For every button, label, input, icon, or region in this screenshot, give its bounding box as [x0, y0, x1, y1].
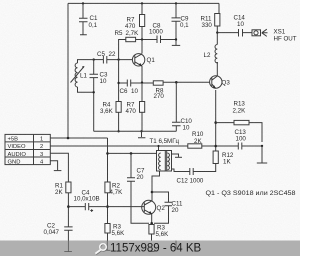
resistor R7b	[126, 102, 145, 116]
wire stubs through bar	[64, 241, 176, 252]
node Q2 collector	[151, 191, 154, 194]
ground bus	[138, 131, 145, 138]
wire C10 bottom	[175, 126, 177, 131]
node C8-C9	[175, 38, 177, 40]
wire tank top to Q1 base	[94, 59, 103, 61]
wire tank bottom drop	[93, 92, 95, 131]
capacitor C10	[172, 118, 192, 132]
wire R7 top lead	[141, 3, 143, 14]
capacitor C1	[79, 3, 98, 34]
wire ground bus	[94, 130, 177, 132]
wire T1 primary bottom to Q2 collector	[152, 171, 160, 201]
capacitor C6	[120, 80, 139, 96]
resistor R1	[55, 182, 71, 196]
wire T1 video stub	[158, 146, 160, 151]
capacitor C8	[149, 23, 163, 44]
resistor R12	[213, 151, 234, 166]
node rail-R7	[141, 2, 143, 4]
wire R12 bottom to C12	[172, 164, 216, 172]
resistor R7	[125, 15, 145, 31]
connector XS1 plug	[252, 29, 297, 43]
inductor L1 tank	[71, 60, 94, 93]
wire Q1 emitter lead	[141, 66, 143, 82]
node base junction	[117, 58, 119, 60]
wire C10 column	[175, 82, 177, 122]
resistor R8	[153, 81, 164, 100]
capacitor C7	[127, 168, 145, 182]
resistor R2	[105, 182, 123, 196]
status bar	[0, 241, 300, 256]
node emitter-R8	[141, 81, 143, 83]
capacitor C13	[235, 129, 247, 150]
resistor R11	[201, 14, 220, 30]
magnifier icon	[95, 244, 106, 255]
wire Q3 emitter	[215, 90, 217, 151]
ground right	[257, 162, 267, 164]
resistor R3b	[149, 225, 169, 239]
wire +5V top rail	[68, 2, 219, 4]
wire R3b bottom	[151, 234, 153, 251]
node R13 tap	[214, 121, 217, 124]
capacitor C4	[74, 190, 100, 213]
wire +5B pin1	[50, 137, 107, 139]
wire audio pin3	[50, 153, 68, 182]
wire C6 right to emitter	[131, 82, 154, 84]
wire T1 sec top gnd	[172, 154, 179, 157]
wire T1 feed	[108, 152, 157, 154]
node collector	[141, 38, 143, 40]
svg-text:1157x989 - 64 KB: 1157x989 - 64 KB	[110, 242, 202, 254]
wire C13 right	[242, 145, 262, 147]
ground pin4	[54, 170, 62, 172]
capacitor C12	[177, 168, 204, 185]
node tank top	[93, 58, 95, 60]
ground T1 secondary	[175, 156, 182, 158]
capacitor C9	[172, 16, 190, 30]
node +5B rail join	[67, 137, 70, 140]
capacitor C2	[44, 223, 73, 237]
capacitor C11	[165, 201, 183, 215]
wire R2 column top	[107, 138, 109, 182]
wire C2 bottom	[67, 231, 69, 241]
wire R1 bottom	[67, 193, 69, 227]
node rail-C1	[82, 2, 84, 4]
node Q2 emitter	[150, 222, 153, 225]
node base Q2 node	[106, 205, 109, 208]
wire R10 to C13	[202, 145, 238, 147]
wire R13 leads	[216, 123, 262, 142]
resistor R3	[105, 224, 125, 238]
node C10 tap	[175, 81, 178, 84]
capacitor C3	[90, 60, 108, 93]
wire left +5V riser	[67, 3, 69, 138]
wire C5 to base junction	[107, 59, 135, 61]
node video stub	[157, 145, 159, 147]
wire R3a bottom	[107, 233, 109, 241]
wire R5 left drop	[119, 40, 126, 60]
capacitor C5	[97, 51, 116, 64]
node rail-C9	[175, 2, 177, 4]
connector J1 table	[5, 134, 50, 165]
wire pin4 gnd	[50, 161, 57, 171]
wire gnd drop right	[261, 146, 263, 163]
node C7 tap	[130, 152, 133, 155]
wire R8 to Q3 base	[163, 81, 211, 83]
node tank bottom	[93, 91, 95, 93]
wire C8 right riser	[161, 3, 177, 45]
node C6 left	[117, 82, 119, 84]
node R7b bus	[140, 130, 142, 132]
node L2-C14	[216, 31, 218, 33]
wire divider column	[118, 60, 120, 102]
wire C11 bottom	[154, 206, 169, 223]
wire collector to C11	[152, 192, 169, 202]
wire R11 riser	[217, 3, 219, 44]
wire Q2 emitter	[151, 214, 153, 225]
wire L2 to Q3 collector	[216, 62, 218, 77]
wire R2 bottom	[107, 193, 109, 224]
wire Q1 collector lead	[141, 40, 143, 54]
wire C7 column	[131, 153, 149, 223]
wire C6-R8 line	[119, 82, 127, 84]
wire C14 out	[217, 32, 252, 34]
node R2 T1 tap	[106, 152, 109, 155]
transistor Q1	[132, 54, 155, 67]
capacitor C14	[234, 15, 246, 37]
node audio-C4	[67, 205, 70, 208]
node emitter-R10	[214, 145, 217, 148]
wire video line	[50, 145, 188, 147]
wire emitter to R7b	[141, 83, 143, 102]
node R4 bus	[117, 130, 119, 132]
resistor R5	[115, 30, 140, 42]
resistor R13	[233, 101, 250, 125]
transistor Q3	[210, 76, 231, 89]
transformer T1	[150, 138, 180, 171]
wire R7b bottom	[141, 112, 143, 131]
transistor Q2	[142, 200, 166, 214]
ground C9/C8	[172, 44, 180, 46]
wire collector node	[136, 39, 158, 41]
resistor R10	[188, 131, 204, 148]
resistor R4	[100, 102, 121, 116]
node C13 gnd corner	[261, 145, 263, 147]
wire R4 bottom	[118, 112, 120, 131]
wire R7 bottom lead	[141, 27, 143, 40]
inductor L2	[204, 45, 218, 63]
wire C4 line	[68, 206, 142, 208]
